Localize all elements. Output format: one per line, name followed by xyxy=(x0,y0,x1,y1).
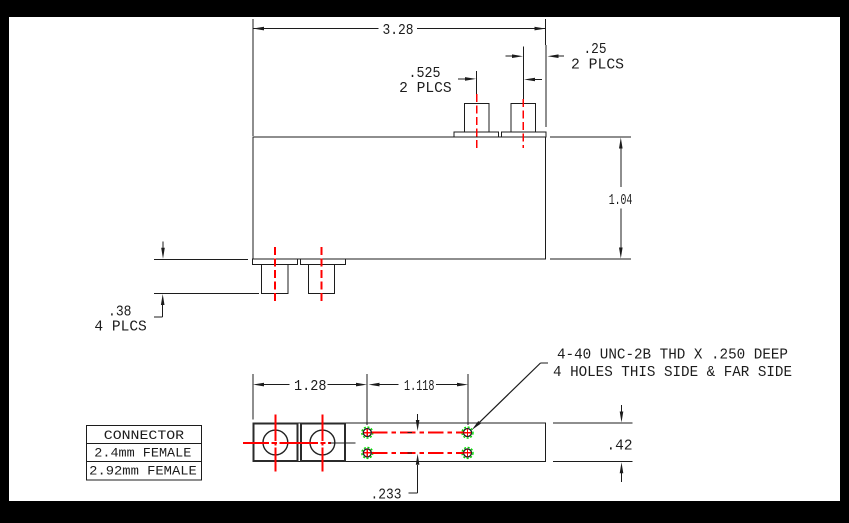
red crosshair horizontal xyxy=(243,442,331,444)
dimension .525 2 PLCS xyxy=(399,66,542,97)
svg-text:.42: .42 xyxy=(607,439,633,455)
bottom connector C flange xyxy=(253,259,298,265)
red dash-dot hole row bottom xyxy=(372,452,463,454)
screw hole top-left xyxy=(362,427,373,438)
bottom view outline xyxy=(253,423,546,462)
svg-text:4 HOLES THIS SIDE & FAR SIDE: 4 HOLES THIS SIDE & FAR SIDE xyxy=(553,365,792,381)
svg-text:2 PLCS: 2 PLCS xyxy=(571,58,624,74)
connector bore circle 1 xyxy=(263,430,288,455)
svg-text:1.118: 1.118 xyxy=(404,379,435,395)
top connector A flange xyxy=(454,132,499,137)
screw hole top-right xyxy=(462,427,473,438)
top connector B body xyxy=(511,104,536,133)
bottom connector C body xyxy=(262,265,289,294)
red centerline connector C xyxy=(274,247,276,305)
red centerline connector D xyxy=(321,247,323,305)
top connector B flange xyxy=(501,132,546,137)
bottom connector D body xyxy=(309,265,335,294)
dimension 1.118 xyxy=(369,374,469,425)
body outline xyxy=(253,137,546,259)
red centerline connector B xyxy=(522,99,524,148)
dimension .38 4 PLCS xyxy=(94,242,259,336)
svg-text:4 PLCS: 4 PLCS xyxy=(94,320,146,336)
dimension 1.28 xyxy=(253,374,367,425)
svg-text:.25: .25 xyxy=(584,42,607,58)
thread callout text xyxy=(553,348,792,382)
black dash on row top xyxy=(408,432,413,434)
dimension .233 xyxy=(371,414,420,504)
black centerline segment right of circle 2 xyxy=(329,442,356,444)
red dash-dot hole row top xyxy=(372,432,463,434)
svg-text:2 PLCS: 2 PLCS xyxy=(399,81,452,97)
svg-text:.233: .233 xyxy=(371,488,402,504)
red centerline connector A xyxy=(476,94,478,148)
thread callout leader xyxy=(472,363,548,430)
svg-text:CONNECTOR: CONNECTOR xyxy=(104,428,185,443)
svg-text:.525: .525 xyxy=(409,66,441,82)
screw hole bottom-left xyxy=(362,447,373,458)
dimension .25 2 PLCS xyxy=(506,42,625,74)
connector block 1 xyxy=(254,424,298,462)
svg-text:1.04: 1.04 xyxy=(609,193,633,209)
dimension .42 xyxy=(553,405,633,482)
bottom connector D flange xyxy=(301,259,346,265)
red crosshair vertical 1 xyxy=(274,415,276,472)
top connector A body xyxy=(464,104,489,133)
svg-text:2.4mm FEMALE: 2.4mm FEMALE xyxy=(94,445,191,460)
svg-text:3.28: 3.28 xyxy=(383,23,414,39)
svg-text:4-40 UNC-2B THD X .250 DEEP: 4-40 UNC-2B THD X .250 DEEP xyxy=(557,348,788,364)
centerline stub above connector B xyxy=(522,47,524,99)
dimension 3.28 xyxy=(253,19,546,136)
connector table xyxy=(86,425,201,480)
dimension 1.04 xyxy=(550,137,632,259)
svg-text:2.92mm FEMALE: 2.92mm FEMALE xyxy=(89,464,197,479)
black dash on row bottom xyxy=(408,452,413,454)
svg-text:1.28: 1.28 xyxy=(294,379,327,395)
screw hole bottom-right xyxy=(462,447,473,458)
connector bore circle 2 xyxy=(310,430,335,455)
svg-text:.38: .38 xyxy=(108,304,132,320)
connector block 2 xyxy=(301,424,345,462)
red crosshair vertical 2 xyxy=(321,415,323,472)
centerline stub above connector A xyxy=(476,71,478,94)
